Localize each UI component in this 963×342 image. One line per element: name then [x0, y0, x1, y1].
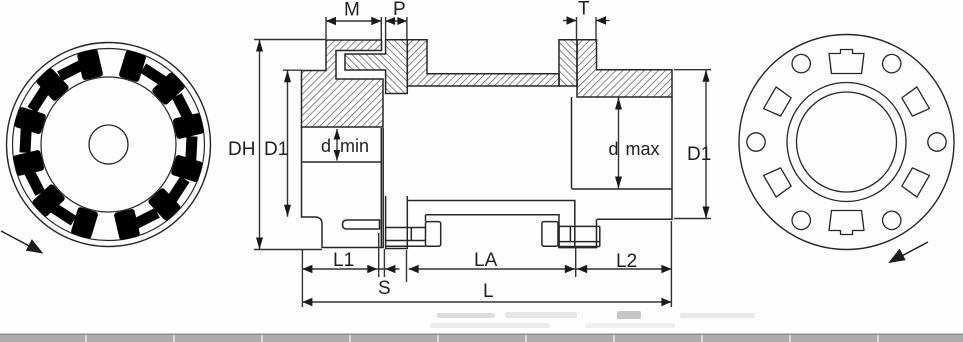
- spider neck (H crossbar) at 303 deg: [27, 86, 50, 113]
- dim T arrowheads (outside): [567, 16, 577, 24]
- sleeve body and band (section): [407, 40, 559, 86]
- dim L2 arrowheads: [577, 265, 587, 273]
- dim D1 right line: [705, 70, 707, 219]
- right view bore circle: [797, 92, 897, 192]
- left view flange rim circle: [13, 49, 205, 241]
- bottom extension lines: [301, 250, 303, 308]
- svg-text:L: L: [483, 281, 494, 302]
- jaw pocket at 60 deg: [901, 87, 930, 118]
- right view hub ring circle: [787, 83, 906, 202]
- spider tooth bar at 17 deg: [118, 50, 146, 83]
- right flange clamp screw shaft: [558, 226, 600, 246]
- table header column separators: [86, 335, 878, 342]
- dim D1 left arrowheads: [284, 70, 291, 82]
- rotation arrow (right view): [890, 242, 928, 262]
- dim L1 arrowheads: [302, 265, 312, 273]
- svg-text:d: d: [609, 139, 619, 159]
- spider neck (H crossbar) at 333 deg: [57, 60, 84, 81]
- spider tooth bar at 167 deg: [114, 208, 141, 240]
- svg-text:S: S: [378, 278, 391, 299]
- svg-text:LA: LA: [474, 250, 498, 271]
- svg-text:D1: D1: [264, 139, 288, 160]
- dim d max arrowheads: [615, 98, 622, 110]
- spider tooth bar at 227 deg: [31, 183, 66, 217]
- spider neck (H crossbar) at 123 deg: [167, 176, 190, 203]
- dim M arrowheads: [326, 17, 336, 25]
- dim D1 left line: [287, 70, 289, 217]
- svg-text:D1: D1: [687, 144, 711, 165]
- right hub bore line (d max): [572, 188, 673, 190]
- screw hole at 90 deg: [928, 133, 946, 151]
- dim S outside arrowhead: [385, 265, 395, 273]
- screw hole at 150 deg: [879, 208, 904, 233]
- dim D1 right extensions: [674, 69, 711, 71]
- spider tooth bar at 257 deg: [13, 150, 45, 177]
- left view outer circle: [7, 43, 211, 247]
- dim L arrowheads: [302, 298, 312, 306]
- sleeve left flange lower silhouette: [386, 196, 408, 249]
- dim DH line: [259, 40, 261, 250]
- sleeve right flange piece (section): [559, 40, 577, 86]
- left hub lower silhouette outline: [302, 127, 384, 248]
- screw hole at 270 deg: [747, 133, 765, 151]
- jaw pocket with keyway notch at 0 deg: [829, 50, 864, 74]
- right view outer circle: [739, 35, 954, 250]
- spider tooth bar at 107 deg: [170, 154, 203, 182]
- spider tooth bar at 287 deg: [14, 106, 47, 134]
- bottom dim line L: [302, 301, 671, 303]
- dim d min arrow line: [336, 129, 338, 161]
- jaw pocket at 300 deg: [764, 87, 793, 118]
- spider neck (H crossbar) at 273 deg: [19, 127, 31, 153]
- table header band top edge: [0, 334, 963, 336]
- sleeve left flange with tongue (section): [345, 40, 407, 94]
- dim DH top extension: [254, 39, 326, 41]
- right flange clamp screw head: [542, 222, 558, 247]
- table header grey band: [0, 334, 963, 342]
- dim D1 left extension: [283, 69, 301, 71]
- jaw pocket at 240 deg: [764, 166, 793, 197]
- dim LA arrowheads: [409, 265, 419, 273]
- svg-text:L1: L1: [333, 250, 354, 271]
- left flange clamp screw shaft: [385, 228, 426, 247]
- left hub bore line (d min): [302, 161, 382, 163]
- dim D1 right arrowheads: [703, 70, 710, 82]
- right hub section (upper half) with collar: [577, 40, 672, 97]
- screw hole at 210 deg: [789, 208, 814, 233]
- svg-text:M: M: [344, 0, 360, 21]
- svg-text:DH: DH: [228, 139, 255, 160]
- dim M line: [326, 20, 381, 22]
- svg-text:max: max: [626, 139, 660, 159]
- faint cropped table text ghosts: [430, 311, 755, 328]
- dim P line: [386, 20, 407, 22]
- dim DH bottom extension: [254, 249, 322, 251]
- screw hole at 30 deg: [879, 51, 904, 76]
- jaw pocket with keyway notch at 180 deg: [829, 211, 864, 235]
- svg-text:P: P: [393, 0, 406, 20]
- spider tooth bar at 347 deg: [77, 49, 104, 81]
- spider tooth bar at 197 deg: [70, 206, 98, 239]
- left view jaw-ring inner circle: [41, 77, 176, 212]
- dim P extension lines: [385, 17, 387, 39]
- spider neck (H crossbar) at 33 deg: [140, 63, 167, 86]
- sleeve outer silhouette line (lower): [407, 201, 575, 226]
- spider tooth bar at 317 deg: [35, 67, 69, 102]
- bottom dim line L1-S-LA-L2: [302, 268, 399, 270]
- left hub section (upper half) with collar and tooth channel: [302, 40, 384, 127]
- svg-text:T: T: [578, 0, 590, 20]
- right hub face and collar lower silhouette: [559, 97, 597, 248]
- left view bore circle: [89, 125, 128, 164]
- screw hole at 330 deg: [789, 51, 814, 76]
- right hub lower silhouette outline: [597, 97, 672, 219]
- svg-text:min: min: [340, 136, 369, 156]
- dim M extension lines: [325, 17, 327, 39]
- spider neck (H crossbar) at 93 deg: [185, 136, 197, 162]
- left hub set-screw slot: [343, 220, 380, 229]
- dim T line (outside stubs): [563, 20, 577, 22]
- spider neck (H crossbar) at 213 deg: [50, 203, 77, 226]
- spider tooth bar at 77 deg: [172, 113, 204, 140]
- spider neck (H crossbar) at 153 deg: [133, 208, 160, 229]
- spider tooth bar at 47 deg: [151, 71, 186, 105]
- dim d min arrowheads: [334, 129, 341, 140]
- dim d max arrow line: [618, 98, 620, 189]
- spider neck (H crossbar) at 63 deg: [172, 93, 193, 120]
- svg-text:d: d: [321, 136, 331, 156]
- left flange clamp screw head: [426, 222, 441, 247]
- dim P arrowheads: [386, 17, 396, 25]
- dim T extension lines: [576, 17, 578, 39]
- rotation arrow (left view): [1, 231, 42, 253]
- spider neck (H crossbar) at 243 deg: [24, 169, 45, 196]
- svg-text:L2: L2: [616, 251, 637, 272]
- spider tooth bar at 137 deg: [147, 187, 181, 222]
- dim DH arrowheads: [256, 40, 263, 52]
- jaw pocket at 120 deg: [901, 166, 930, 197]
- sleeve body silhouette line (lower): [426, 215, 560, 248]
